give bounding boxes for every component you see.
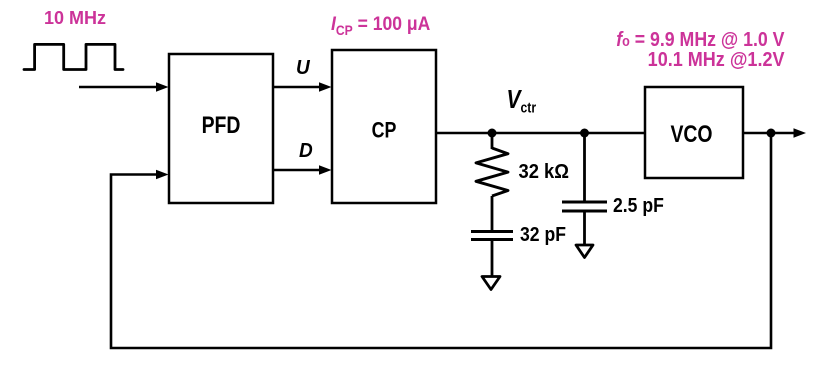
arrowhead: reference input	[156, 82, 169, 91]
reference clock waveform	[24, 44, 123, 69]
PFD block	[169, 54, 273, 203]
svg-text:CP: CP	[372, 119, 397, 143]
svg-text:32 kΩ: 32 kΩ	[519, 161, 570, 183]
svg-text:U: U	[296, 57, 311, 80]
node label D	[299, 140, 313, 163]
wire: feedback path	[111, 133, 771, 348]
wire: reference input	[79, 86, 158, 89]
label: 10 MHz	[44, 8, 106, 28]
node label U	[296, 57, 311, 80]
node: junction at C2	[580, 129, 589, 138]
wire: C2 to ground	[583, 211, 586, 245]
svg-text:VCO: VCO	[670, 120, 712, 147]
wire: CP output to VCO	[436, 132, 645, 135]
label: ICP = 100 uA	[331, 12, 430, 38]
label: 32 pF	[520, 223, 566, 245]
charge pump CP block	[332, 50, 436, 203]
wire: C1 to ground	[491, 240, 494, 277]
VCO block	[645, 87, 743, 178]
arrowhead: D	[319, 165, 332, 174]
label: 32 kOhm	[519, 161, 570, 183]
label: 10.1 MHz @1.2V	[648, 49, 785, 71]
ground (C2)	[576, 245, 593, 258]
ground (C1)	[482, 277, 500, 290]
wire: junction to resistor	[491, 133, 494, 149]
svg-text:fo = 9.9 MHz @ 1.0 V: fo = 9.9 MHz @ 1.0 V	[616, 29, 784, 51]
capacitor C2 2.5pF	[562, 201, 607, 204]
resistor R1	[476, 148, 508, 196]
capacitor C1 32pF	[471, 230, 513, 233]
arrowhead: U	[319, 82, 332, 91]
svg-text:10.1 MHz @1.2V: 10.1 MHz @1.2V	[648, 49, 785, 71]
svg-text:32 pF: 32 pF	[520, 223, 566, 245]
node: junction at R1	[488, 129, 497, 138]
arrowhead: feedback into PFD	[156, 170, 169, 179]
svg-text:ICP = 100 μA: ICP = 100 μA	[331, 12, 430, 38]
svg-text:D: D	[299, 140, 313, 163]
svg-text:Vctr: Vctr	[507, 86, 537, 116]
svg-text:10 MHz: 10 MHz	[44, 8, 106, 28]
node: feedback junction	[767, 129, 776, 138]
wire: VCO output	[743, 132, 795, 135]
wire: D output	[273, 169, 321, 172]
wire: resistor to C1	[491, 196, 494, 232]
wire: U output	[273, 86, 321, 89]
label: fo = 9.9 MHz @ 1.0 V	[616, 29, 784, 51]
svg-text:2.5 pF: 2.5 pF	[613, 194, 664, 216]
svg-text:PFD: PFD	[202, 111, 241, 138]
arrowhead: output	[794, 128, 807, 138]
wire: junction to C2	[583, 133, 586, 202]
label: 2.5 pF	[613, 194, 664, 216]
node label Vctr	[507, 86, 537, 116]
